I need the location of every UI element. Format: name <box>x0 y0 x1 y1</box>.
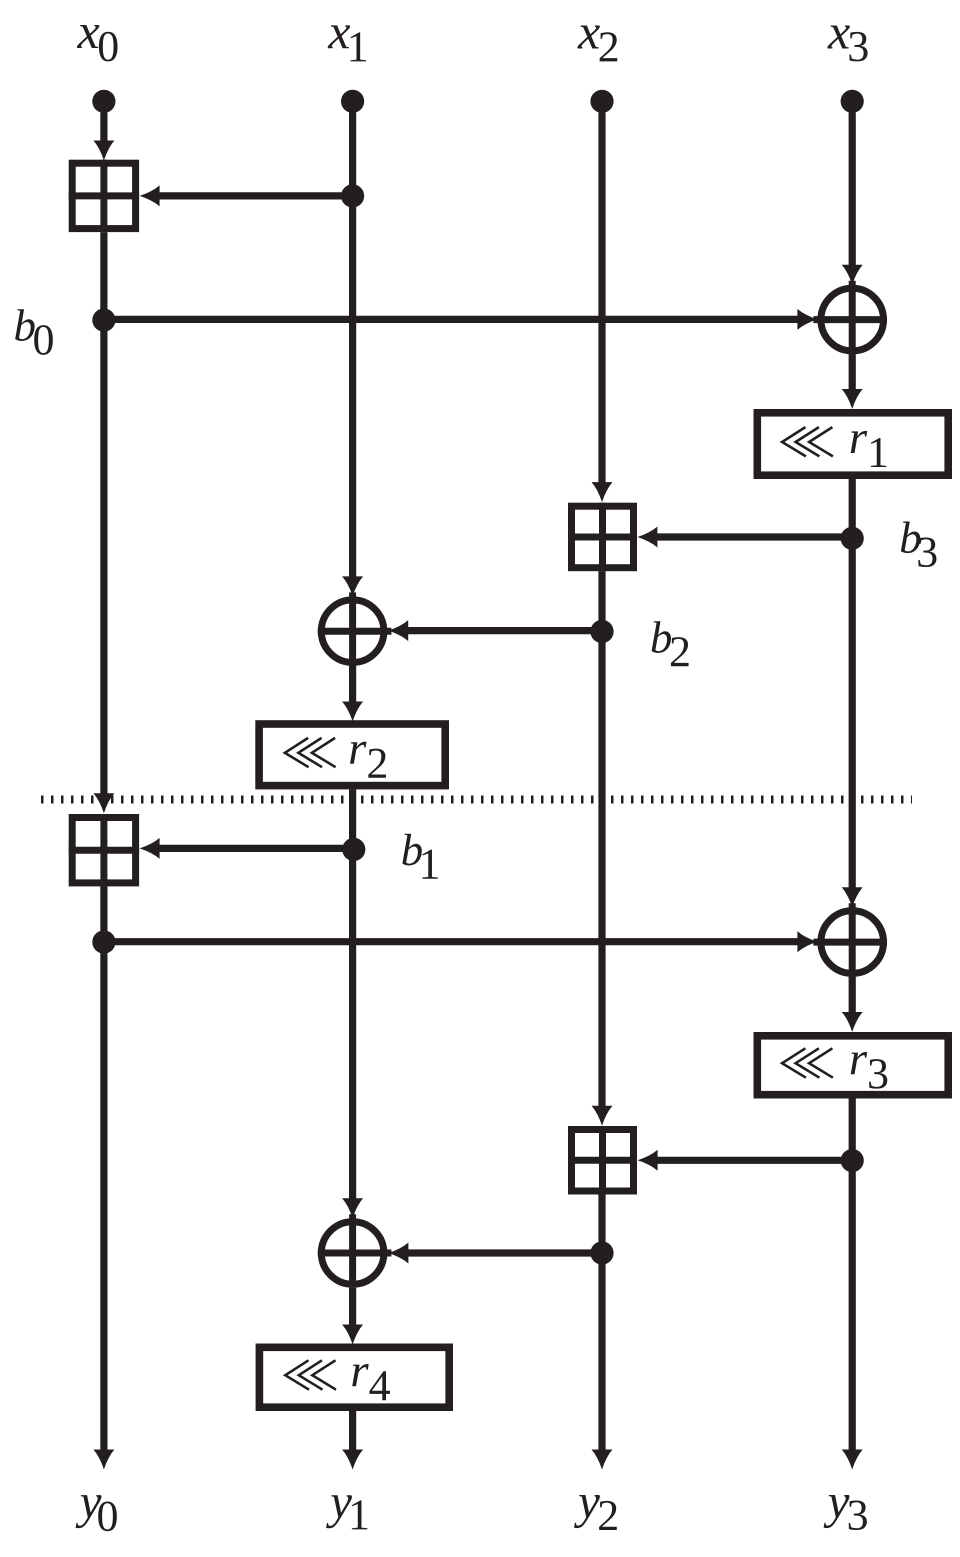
arrowhead into A4 right side <box>638 1150 658 1171</box>
arrowhead into rotation r2 <box>342 702 363 722</box>
arrowhead into xor X3 <box>842 887 863 907</box>
node b2 junction dot <box>590 620 613 643</box>
dotted round-separator line <box>41 796 912 804</box>
arrowhead into rotation r3 <box>842 1012 863 1032</box>
label b3 <box>901 521 937 567</box>
wire b1 to adder A3 <box>159 845 353 852</box>
wire x2 input to adder A2 <box>598 101 605 483</box>
rotation box r1 <box>757 413 948 475</box>
xor gate X1 <box>813 281 887 355</box>
label y0 <box>76 1495 117 1531</box>
arrowhead output y1 <box>342 1450 363 1470</box>
arrowhead into A3 right side <box>140 838 160 859</box>
arrowhead output y2 <box>592 1450 613 1470</box>
modular adder A4 <box>568 1126 637 1195</box>
label y1 <box>326 1495 367 1529</box>
wire b3 to adder A2 <box>656 533 852 540</box>
xor gate X3 <box>813 903 887 977</box>
arrowhead into X2 right side <box>388 620 408 641</box>
wire A2 to adder A4 <box>598 571 605 1107</box>
arrowhead into adder A2 <box>592 482 613 502</box>
input node x2 <box>590 90 613 113</box>
arrowhead into xor X4 <box>342 1198 363 1218</box>
node b0 junction dot <box>92 309 115 332</box>
label x0 <box>77 25 118 61</box>
wire A4 to output y2 <box>598 1194 605 1450</box>
junction dot on x2 feeding X4 <box>590 1241 613 1264</box>
wire r2 to xor X4 <box>349 789 356 1199</box>
arrowhead into adder A3 <box>93 793 114 813</box>
xor gate X2 <box>318 592 392 666</box>
label y2 <box>574 1495 617 1530</box>
wire X3 to rotation r3 <box>849 977 856 1013</box>
modular adder A3 <box>69 814 139 886</box>
modular adder A1 <box>69 160 139 232</box>
label x3 <box>827 26 867 62</box>
wire x0 input to adder A1 <box>100 101 107 145</box>
junction dot on x0 feeding X3 <box>92 930 115 953</box>
wire x3 input to xor X1 <box>849 101 856 266</box>
wire X1 to rotation r1 <box>849 354 856 390</box>
wire x3 branch to adder A4 <box>657 1157 853 1164</box>
wire X4 to rotation r4 <box>349 1288 356 1326</box>
arrowhead into X4 right side <box>388 1243 408 1264</box>
arrowhead into X1 left side <box>797 309 817 330</box>
rotation box r3 <box>757 1036 948 1095</box>
arrowhead into A2 right side <box>637 527 657 548</box>
junction dot on x1 feeding A1 <box>341 184 364 207</box>
wire b0 to xor X1 <box>104 316 799 323</box>
wire x1 input to xor X2 <box>349 101 356 578</box>
arrowhead into rotation r4 <box>342 1325 363 1345</box>
arrowhead into adder A1 <box>93 141 114 161</box>
xor gate X4 <box>318 1214 392 1288</box>
input node x0 <box>92 90 115 113</box>
wire A1 to adder A3 <box>100 232 107 795</box>
wire x2 branch to xor X4 <box>407 1249 602 1256</box>
wire x1 branch to adder A1 <box>158 192 353 199</box>
wire b2 to xor X2 <box>407 627 602 634</box>
wire r4 to output y1 <box>349 1411 356 1450</box>
arrowhead into rotation r1 <box>842 389 863 409</box>
wire r3 to output y3 <box>849 1099 856 1451</box>
wire X2 to rotation r2 <box>349 666 356 703</box>
arrowhead output y3 <box>842 1450 863 1470</box>
modular adder A2 <box>568 503 637 572</box>
junction dot on x3 feeding A4 <box>841 1149 864 1172</box>
wire x0 branch to xor X3 <box>104 938 799 945</box>
label b2 <box>652 621 689 666</box>
arrowhead output y0 <box>93 1450 114 1470</box>
rotation box r2 <box>259 724 445 786</box>
label x1 <box>328 25 366 61</box>
label x2 <box>577 26 617 62</box>
arrowhead into xor X1 <box>842 265 863 285</box>
label b1 <box>402 834 437 879</box>
node b3 junction dot <box>841 527 864 550</box>
arrowhead into xor X2 <box>342 576 363 596</box>
arrowhead into A1 right side <box>140 185 160 206</box>
arrowhead into adder A4 <box>592 1106 613 1126</box>
label y3 <box>824 1495 867 1530</box>
node b1 junction dot <box>342 838 365 861</box>
wire r1 to xor X3 <box>849 479 856 889</box>
label b0 <box>15 309 53 355</box>
wire A3 to output y0 <box>100 886 107 1450</box>
arrowhead into X3 left side <box>797 931 817 952</box>
input node x1 <box>341 90 364 113</box>
input node x3 <box>841 90 864 113</box>
rotation box r4 <box>259 1347 449 1407</box>
